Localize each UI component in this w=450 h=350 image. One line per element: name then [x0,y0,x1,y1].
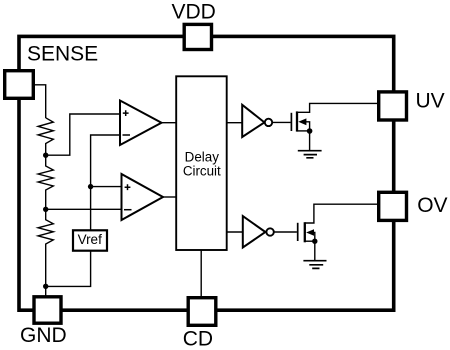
resistor R3 [38,209,53,286]
svg-text:VDD: VDD [172,0,216,23]
transistor Q1 channel bar [296,111,298,131]
ground symbol (Q2) [303,261,326,269]
wire: Vref block to comparator node [90,187,92,230]
wire: bottom node to GND pin [45,286,47,299]
wire: X2 to Q2 gate [274,231,297,233]
transistor Q2 channel bar [304,222,306,242]
Q2 drain wire to OV pin [305,204,378,223]
U1 + marker [123,110,129,116]
node: resistor bottom / GND [43,284,48,289]
Q2 source wire [305,240,315,242]
comparator U2 (overvoltage) [122,174,164,220]
wire: U1 - input from Vref rail [91,135,120,187]
pin VDD [184,24,211,49]
svg-text:Circuit: Circuit [183,164,221,179]
U2 + marker [125,184,131,190]
Q1 drain wire to UV pin [297,103,378,112]
Q1 source node [307,128,313,134]
svg-text:UV: UV [416,89,445,112]
wire: SENSE pin to resistor chain [34,85,46,118]
svg-text:GND: GND [20,324,67,347]
Q1 source wire [297,130,310,132]
inverter X1 [242,105,264,137]
pin GND [34,297,61,323]
wire: Vref block to GND node [47,252,91,287]
IC boundary box [19,36,394,310]
resistor R2 [38,155,53,209]
wire: X1 to Q1 gate [272,121,290,123]
node: OV tap (R2/R3 junction) [43,207,48,212]
svg-text:Delay: Delay [185,149,220,164]
pin UV [379,92,407,120]
wire: delay circuit to inverter X1 [227,122,242,124]
svg-text:CD: CD [183,327,213,350]
delay circuit block [176,76,227,250]
X2 output bubble [266,228,273,235]
wire: delay circuit to inverter X2 [227,231,243,233]
comparator U1 (undervoltage) [120,101,162,146]
pin SENSE [5,71,34,99]
pin OV [379,192,407,220]
wire: UV tap to comparator U1 + input [46,114,119,155]
wire: Q2 body/source to ground [314,233,315,261]
Q2 body arrow [306,229,314,236]
ground symbol (Q1) [298,151,322,158]
svg-text:OV: OV [417,194,447,217]
wire: U2 output to delay circuit [163,196,176,198]
svg-text:SENSE: SENSE [27,42,98,65]
wire: delay circuit to CD pin [200,250,202,299]
inverter X2 [243,216,266,247]
transistor Q1 gate bar [290,113,292,131]
wire: node to U2 + input [91,186,121,188]
wire: U1 output to delay circuit [162,122,177,124]
resistor R1 [38,118,53,155]
transistor Q2 gate bar [297,223,299,241]
wire: Q1 body/source to ground [306,122,310,151]
svg-text:Vref: Vref [78,232,103,247]
pin CD [188,298,216,326]
node: Vref / U1- / U2+ junction [88,184,93,189]
U1 - marker [123,134,131,136]
Vref block [73,230,107,250]
wire: OV tap to U2 - input [46,208,122,210]
node: UV tap (R1/R2 junction) [43,153,48,158]
U2 - marker [124,209,132,211]
Q2 source node [312,239,317,244]
Q1 body arrow [298,118,306,125]
X1 output bubble [265,119,272,126]
